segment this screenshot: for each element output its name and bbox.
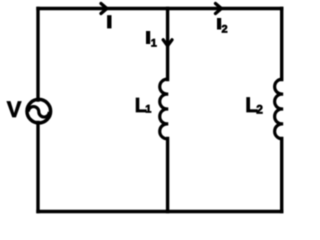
- label I1: [146, 31, 150, 44]
- arrow I (top wire, pointing right): [101, 4, 107, 14]
- svg-text:V: V: [7, 97, 22, 122]
- wire top: [38, 7, 282, 10]
- label I2: [217, 18, 221, 30]
- inductor L2 coil: [275, 79, 283, 139]
- arrow I2 (top wire, pointing right): [216, 4, 222, 14]
- wire bottom: [38, 210, 282, 213]
- wire middle lower: [166, 139, 169, 212]
- wire right lower: [280, 139, 283, 212]
- svg-text:1: 1: [151, 38, 157, 50]
- AC source sine wave: [28, 107, 49, 118]
- wire middle upper: [166, 9, 169, 80]
- wire left upper: [36, 9, 39, 101]
- svg-text:1: 1: [145, 104, 151, 116]
- wire left lower: [36, 123, 39, 212]
- inductor L1 coil: [160, 79, 168, 139]
- label I: [107, 15, 111, 28]
- arrow I1 (middle branch, pointing down): [163, 40, 172, 46]
- AC source V circle: [27, 99, 51, 123]
- svg-text:2: 2: [222, 24, 228, 36]
- wire right upper: [280, 9, 283, 80]
- svg-text:2: 2: [256, 103, 263, 117]
